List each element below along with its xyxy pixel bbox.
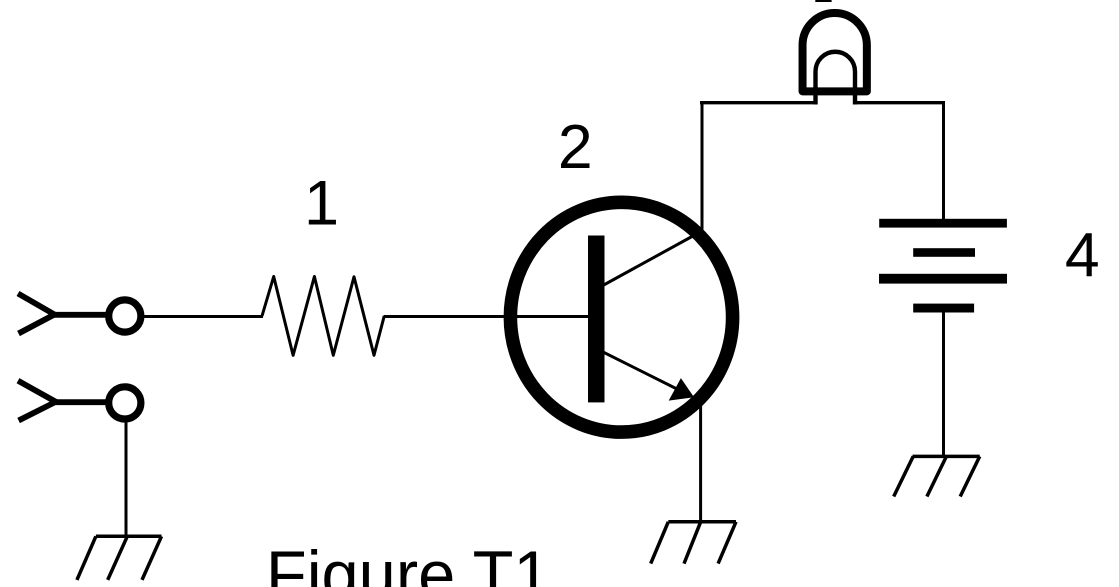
wire: emitter down — [699, 402, 702, 523]
input probe J2 (bottom antenna terminal) — [18, 381, 107, 421]
terminal circle J1 — [109, 300, 141, 332]
transistor Q2 base bar — [588, 236, 605, 403]
wire: down to battery — [942, 101, 945, 220]
svg-text:4: 4 — [1065, 220, 1100, 290]
svg-text:2: 2 — [558, 112, 593, 182]
terminal circle J2 — [109, 387, 141, 419]
wire: top rail left of lamp — [700, 101, 817, 104]
transistor Q2 emitter arrowhead — [669, 378, 694, 401]
transistor Q2 collector line — [601, 231, 702, 287]
battery 4 plate 1 (long) — [879, 219, 1007, 228]
ground (emitter) — [651, 522, 736, 564]
lamp 3 inner dome — [816, 52, 856, 105]
input probe J1 (top antenna terminal) — [18, 294, 108, 334]
battery 4 plate 2 (short) — [913, 248, 975, 257]
ground (input) — [77, 536, 162, 580]
svg-text:Figure T1: Figure T1 — [266, 539, 551, 587]
transistor Q2 emitter line — [600, 351, 682, 392]
svg-text:1: 1 — [304, 168, 339, 238]
resistor 1 — [262, 277, 384, 356]
wire: terminal J2 to ground — [125, 418, 128, 537]
ground (battery) — [894, 456, 980, 496]
wire: collector up — [701, 101, 704, 235]
wire: resistor to transistor base — [384, 315, 596, 318]
battery 4 plate 3 (long) — [879, 274, 1007, 284]
wire: top rail right of lamp — [854, 101, 945, 104]
battery 4 plate 4 (short) — [913, 304, 974, 313]
wire: terminal J1 to resistor — [141, 315, 264, 318]
lamp 3 envelope (outer dome) — [803, 13, 867, 91]
transistor Q2 circle — [510, 202, 732, 432]
label 3 (cut off at top edge) — [815, 0, 831, 2]
wire: battery to ground — [942, 312, 945, 457]
